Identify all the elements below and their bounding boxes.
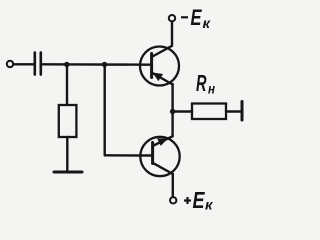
svg-text:н: н	[208, 82, 215, 97]
label Rn	[196, 70, 215, 97]
label -Ek	[181, 5, 211, 31]
terminal +Ek	[170, 197, 176, 203]
ground	[54, 171, 82, 174]
transistor VT1 body	[140, 47, 179, 86]
svg-text:к: к	[203, 15, 211, 31]
wire to VT2 base	[105, 154, 152, 157]
transistor VT1 collector lead	[152, 22, 172, 58]
wire Rn to output bar	[226, 110, 241, 112]
transistor VT2 collector lead	[153, 163, 173, 197]
output terminal bar	[241, 102, 244, 121]
svg-text:E: E	[191, 5, 203, 30]
output node junction	[170, 109, 175, 114]
wire input to capacitor	[14, 63, 34, 65]
wire capacitor to VT1 base	[42, 63, 151, 66]
label +Ek	[184, 187, 213, 213]
capacitor C1 right plate	[39, 53, 42, 75]
wire output node to Rn	[173, 110, 192, 112]
transistor VT1 emitter arrow	[153, 73, 162, 81]
transistor VT1 base bar	[150, 54, 153, 78]
input terminal	[7, 61, 13, 67]
wire VT1 emitter to output node	[171, 84, 173, 137]
capacitor C1 left plate	[33, 53, 36, 75]
transistor VT2 body	[140, 137, 179, 176]
transistor VT1 emitter lead	[152, 73, 173, 85]
terminal -Ek	[169, 15, 175, 21]
node junction B	[102, 62, 107, 67]
transistor VT2 base bar	[151, 143, 154, 164]
resistor Rn	[192, 104, 226, 120]
wire R1 to ground	[66, 137, 68, 171]
transistor VT2 emitter arrow	[158, 139, 168, 146]
svg-text:R: R	[196, 70, 207, 96]
transistor VT2 emitter lead	[153, 136, 173, 146]
resistor R1	[59, 105, 77, 137]
svg-text:к: к	[205, 197, 213, 213]
svg-text:E: E	[193, 187, 206, 213]
wire node A down to R1	[66, 65, 68, 106]
wire node B down	[103, 65, 105, 156]
node junction A	[64, 62, 69, 67]
